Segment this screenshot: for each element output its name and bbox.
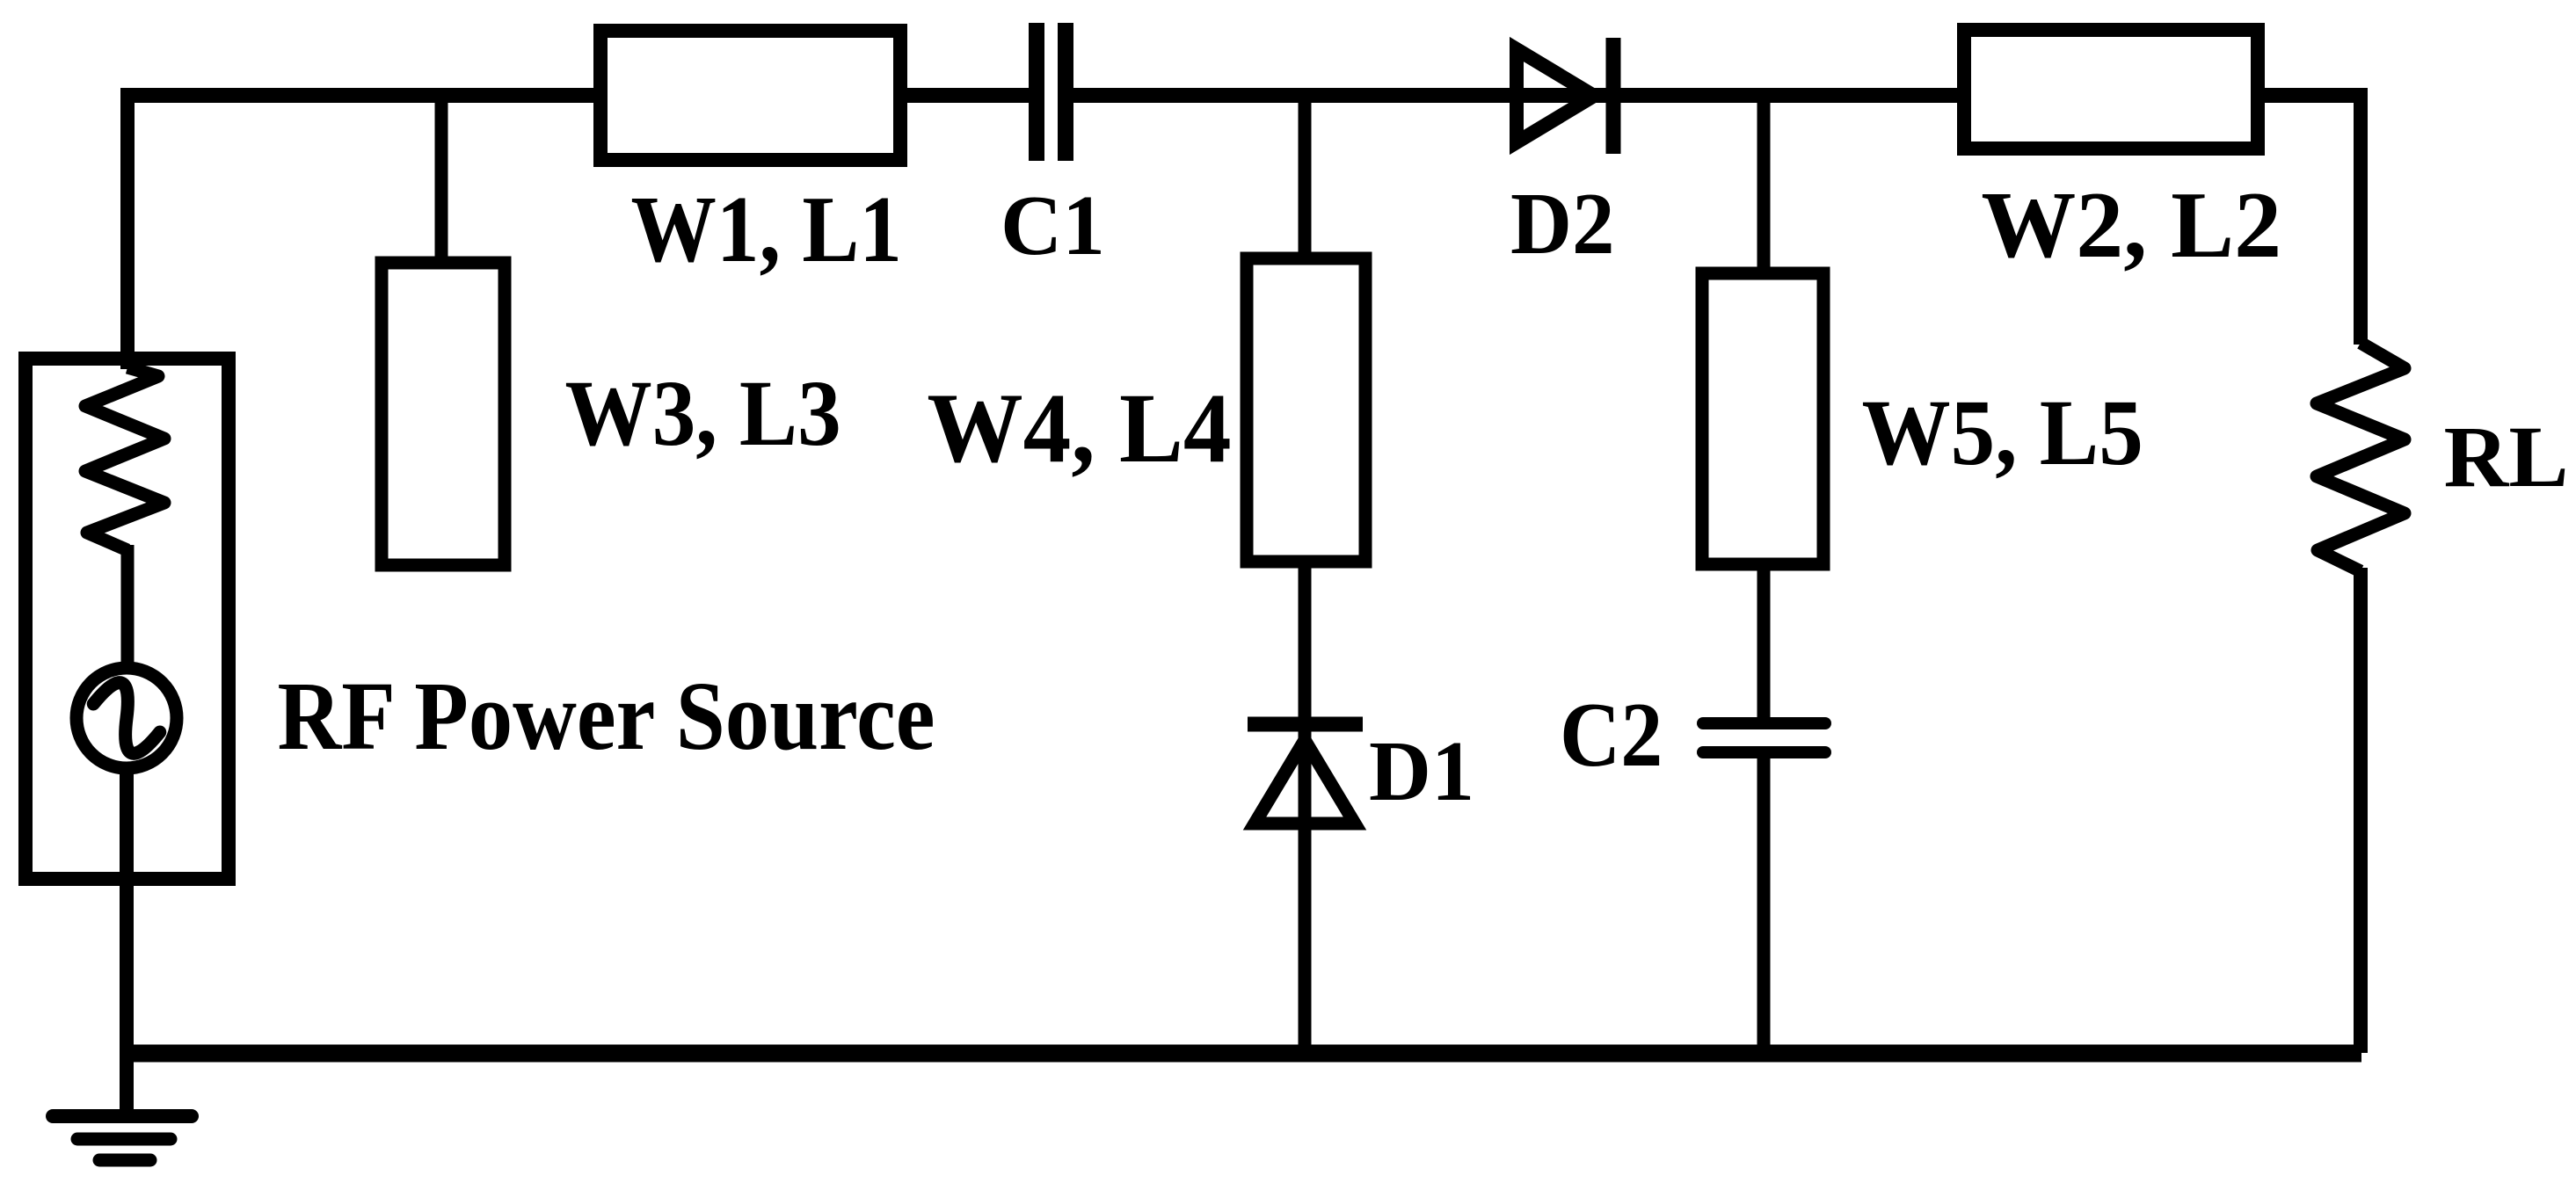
ground — [53, 1116, 192, 1160]
wire top bus right segment — [1066, 88, 2361, 103]
svg-text:W1, L1: W1, L1 — [631, 177, 903, 282]
microstrip W5 — [1702, 273, 1823, 564]
svg-text:RF Power Source: RF Power Source — [278, 663, 935, 771]
svg-text:W3, L3: W3, L3 — [565, 362, 841, 466]
wire W5 branch drop — [1757, 95, 1771, 274]
microstrip W4 — [1247, 258, 1365, 562]
wire right vertical drop to RL — [2354, 88, 2368, 345]
wire W5 to C2 — [1757, 564, 1771, 719]
wire W3 stub drop — [435, 95, 448, 264]
resistor (RF source internal impedance) — [85, 367, 164, 550]
wire W4 branch drop — [1299, 95, 1312, 259]
wire left vertical drop to RF source — [120, 88, 135, 369]
svg-text:W5, L5: W5, L5 — [1862, 381, 2143, 485]
microstrip W3 — [382, 263, 505, 565]
capacitor C2 — [1703, 723, 1825, 752]
svg-text:C1: C1 — [1001, 178, 1105, 273]
resistor RL — [2317, 343, 2405, 571]
svg-text:C2: C2 — [1560, 683, 1663, 786]
wire C2 to bottom bus — [1757, 756, 1771, 1053]
svg-text:D2: D2 — [1510, 174, 1615, 272]
diode D2 cathode bar — [1606, 38, 1621, 154]
wire bottom bus — [121, 1045, 2361, 1063]
wire AC source to ground — [120, 765, 134, 1110]
wire top bus left segment — [121, 88, 1037, 103]
diode D2 triangle — [1517, 49, 1594, 142]
microstrip W1 — [600, 31, 900, 160]
wire W4 to D1 — [1299, 562, 1312, 1053]
svg-text:W2, L2: W2, L2 — [1981, 172, 2281, 278]
svg-text:RL: RL — [2444, 410, 2569, 505]
AC sine wave — [82, 676, 171, 760]
microstrip W2 — [1964, 30, 2258, 149]
svg-text:D1: D1 — [1369, 724, 1474, 819]
diode D1 cathode bar — [1248, 717, 1363, 732]
AC source circle — [76, 668, 177, 768]
wire resistor to AC source — [121, 545, 135, 672]
svg-text:W4, L4: W4, L4 — [927, 374, 1231, 483]
capacitor C1 — [1037, 23, 1066, 161]
RF power source box — [25, 359, 229, 879]
diode D1 triangle — [1255, 740, 1355, 824]
wire RL to bottom bus — [2354, 568, 2368, 1053]
